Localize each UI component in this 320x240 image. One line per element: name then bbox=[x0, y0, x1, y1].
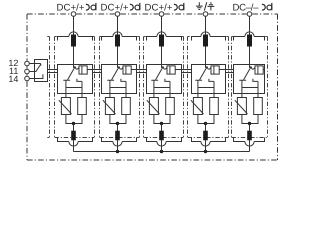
module partition lines (dash-dot) bbox=[47, 37, 267, 138]
FM changeover contact bbox=[35, 64, 43, 79]
switch contact branch 4 bbox=[195, 65, 214, 82]
thermal disconnect device bottom branch 5 bbox=[234, 124, 265, 147]
gas discharge tube branch 4 bbox=[210, 98, 219, 115]
wire terminal 3 to disconnect bbox=[161, 16, 163, 34]
merge junction node branch 2 bbox=[116, 122, 119, 125]
wire terminal 2 to disconnect bbox=[117, 16, 119, 34]
varistor branch 3 bbox=[149, 98, 158, 115]
wires to merge node branch 3 bbox=[154, 115, 170, 124]
merge junction node branch 3 bbox=[160, 122, 163, 125]
internal wiring branch 2 bbox=[110, 80, 126, 97]
fuse element branch 2 bbox=[118, 68, 137, 70]
wire to bus branch 2 bbox=[117, 140, 119, 151]
fuse element branch 4 bbox=[206, 68, 226, 70]
thermal disconnect device bottom branch 1 bbox=[58, 124, 93, 147]
thermal disconnect device top branch 5 bbox=[234, 32, 265, 41]
thermal disconnect device bottom branch 4 bbox=[192, 124, 226, 147]
wire to bus branch 5 bbox=[249, 140, 251, 151]
merge junction node branch 5 bbox=[248, 122, 251, 125]
wire disconnect to SCI box branch 3 bbox=[161, 47, 163, 65]
switch contact branch 5 bbox=[239, 65, 258, 82]
gas discharge tube branch 1 bbox=[78, 98, 87, 115]
bus junction node branch 3 bbox=[160, 150, 163, 153]
SCI disconnection box branch 4 bbox=[192, 65, 226, 94]
svg-text:DC+/+: DC+/+ bbox=[101, 2, 129, 13]
gas discharge tube branch 3 bbox=[166, 98, 175, 115]
varistor branch 1 bbox=[61, 98, 70, 115]
thermal disconnect device bottom branch 3 bbox=[147, 124, 182, 147]
wire to bus branch 3 bbox=[161, 140, 163, 151]
clamp icon pair terminal 2 bbox=[130, 4, 133, 10]
internal wiring branch 4 bbox=[198, 80, 214, 97]
wire disconnect to SCI box branch 2 bbox=[117, 47, 119, 65]
clamp icon pair terminal 3 bbox=[174, 4, 177, 10]
wire terminal 5 to disconnect bbox=[249, 16, 251, 34]
terminal circle 2 bbox=[115, 12, 120, 17]
SCI disconnection box branch 3 bbox=[147, 65, 182, 94]
varistor branch 4 bbox=[193, 98, 202, 115]
wire terminal 1 to disconnect bbox=[73, 16, 75, 34]
wires to merge node branch 1 bbox=[66, 115, 82, 124]
fuse element branch 3 bbox=[162, 68, 182, 70]
varistor branch 2 bbox=[105, 98, 114, 115]
thermal disconnect device bottom branch 2 bbox=[102, 124, 137, 147]
switch contact branch 1 bbox=[63, 65, 82, 82]
terminal circle 3 bbox=[159, 12, 164, 17]
wire disconnect to SCI box branch 4 bbox=[205, 47, 207, 65]
terminal circle 4 bbox=[203, 12, 208, 17]
merge junction node branch 4 bbox=[204, 122, 207, 125]
wire disconnect to SCI box branch 1 bbox=[73, 47, 75, 65]
internal wiring branch 3 bbox=[154, 80, 170, 97]
switch contact branch 3 bbox=[151, 65, 170, 82]
FM changeover contact box bbox=[35, 60, 48, 82]
wire terminal 4 to disconnect bbox=[205, 16, 207, 34]
gas discharge tube branch 5 bbox=[254, 98, 263, 115]
terminal circle 5 bbox=[247, 12, 252, 17]
common bus wire bbox=[74, 151, 250, 153]
gas discharge tube branch 2 bbox=[122, 98, 131, 115]
wire to bus branch 4 bbox=[205, 140, 207, 151]
svg-text:DC–/–: DC–/– bbox=[233, 2, 260, 13]
svg-text:14: 14 bbox=[8, 74, 18, 84]
fuse element branch 5 bbox=[250, 68, 265, 70]
svg-text:DC+/+: DC+/+ bbox=[145, 2, 173, 13]
varistor branch 5 bbox=[237, 98, 246, 115]
monitoring bus wires between modules bbox=[48, 70, 234, 73]
svg-text:DC+/+: DC+/+ bbox=[57, 2, 85, 13]
terminal circle 1 bbox=[71, 12, 76, 17]
bus junction node branch 4 bbox=[204, 150, 207, 153]
thermal disconnect device top branch 1 bbox=[58, 32, 93, 41]
SCI disconnection box branch 5 bbox=[234, 65, 265, 94]
SCI disconnection box branch 1 bbox=[58, 65, 93, 94]
bus junction node branch 2 bbox=[116, 150, 119, 153]
thermal disconnect device top branch 4 bbox=[192, 32, 226, 41]
thermal disconnect device top branch 2 bbox=[102, 32, 137, 41]
fuse element branch 1 bbox=[74, 68, 93, 70]
labels 12 11 14 bbox=[8, 58, 18, 84]
SCI disconnection box branch 2 bbox=[102, 65, 137, 94]
wire disconnect to SCI box branch 5 bbox=[249, 47, 251, 65]
internal wiring branch 1 bbox=[66, 80, 82, 97]
internal wiring branch 5 bbox=[242, 80, 258, 97]
merge junction node branch 1 bbox=[72, 122, 75, 125]
remote signalling terminals 12 11 14 bbox=[25, 61, 30, 66]
wires to merge node branch 4 bbox=[198, 115, 214, 124]
thermal disconnect device top branch 3 bbox=[147, 32, 182, 41]
clamp icon pair terminal 1 bbox=[86, 4, 89, 10]
clamp icon pair terminal 5 bbox=[262, 4, 265, 10]
wires to merge node branch 5 bbox=[242, 115, 258, 124]
wire to bus branch 1 bbox=[73, 140, 75, 151]
ground symbols label terminal 4 bbox=[196, 2, 203, 9]
wires to merge node branch 2 bbox=[110, 115, 126, 124]
device outline border (dash-dot) bbox=[27, 14, 278, 160]
switch contact branch 2 bbox=[107, 65, 126, 82]
